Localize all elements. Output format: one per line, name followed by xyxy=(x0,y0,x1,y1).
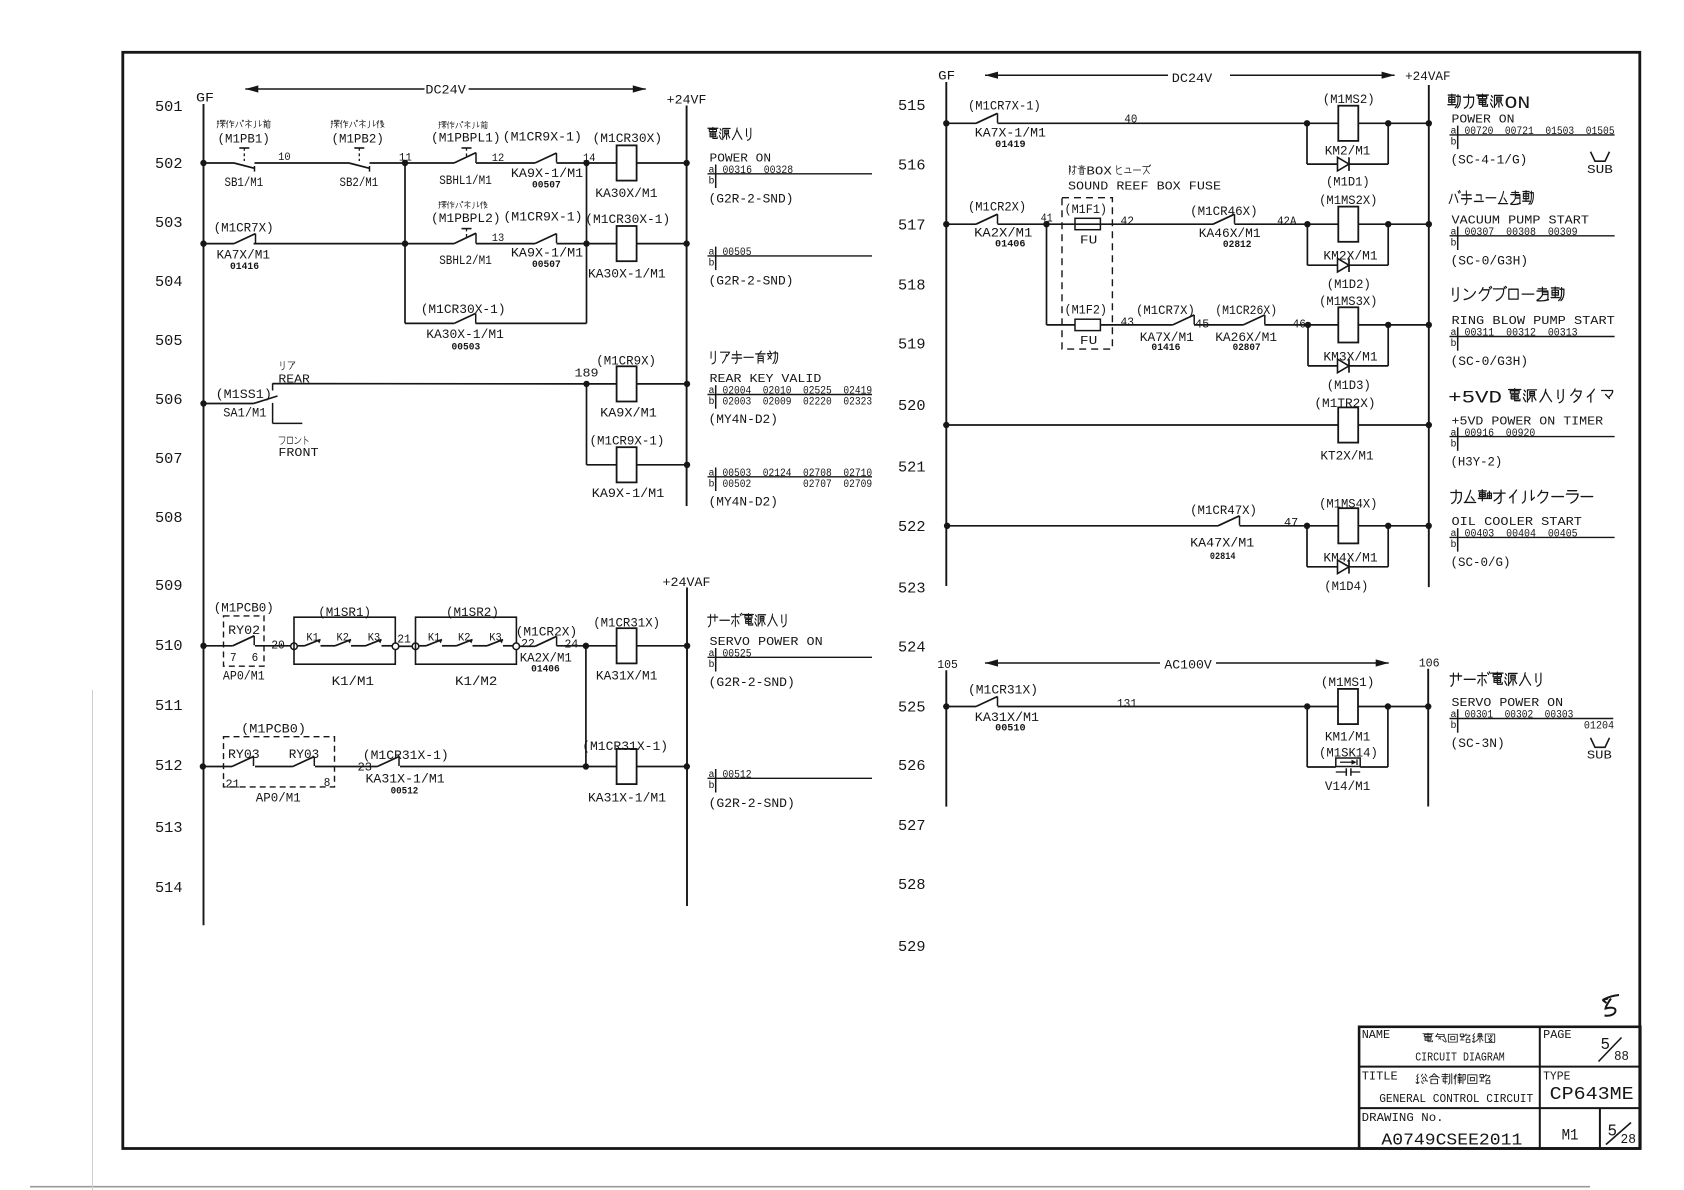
svg-text:02003 02009 02220 02323: 02003 02009 02220 02323 xyxy=(723,397,873,409)
svg-text:KM3X/M1: KM3X/M1 xyxy=(1323,349,1377,364)
junction node 11 on rung 503 xyxy=(402,240,408,246)
svg-text:K2: K2 xyxy=(458,633,470,645)
svg-text:b: b xyxy=(709,659,715,671)
svg-text:+24VAF: +24VAF xyxy=(1405,70,1451,84)
svg-text:a: a xyxy=(709,770,715,781)
contacts K1 K2 K3 in M1SR1 xyxy=(297,639,392,645)
svg-text:00503: 00503 xyxy=(452,343,481,354)
svg-text:523: 523 xyxy=(898,580,926,597)
svg-text:511: 511 xyxy=(155,698,183,715)
relay contact KA9X-1/M1 (M1CR9X-1) rung 503 xyxy=(535,234,557,244)
junction +24VAF rail rung 512 xyxy=(684,763,690,769)
relay coil KA31X/M1 (M1CR31X) xyxy=(617,628,637,663)
svg-text:00510: 00510 xyxy=(995,724,1026,735)
junction on GF rail rung 512 xyxy=(200,763,206,769)
wire rung 525 xyxy=(946,706,1428,708)
contact RY03 second xyxy=(293,757,315,767)
svg-text:(H3Y-2): (H3Y-2) xyxy=(1451,454,1503,469)
junction rail 106 rung 525 xyxy=(1425,703,1431,709)
svg-text:10: 10 xyxy=(278,152,291,164)
svg-text:KT2X/M1: KT2X/M1 xyxy=(1320,449,1373,464)
svg-text:529: 529 xyxy=(898,939,926,956)
power rail +24VF vertical xyxy=(686,106,688,507)
svg-text:SB1/M1: SB1/M1 xyxy=(225,175,264,190)
svg-text:AP0/M1: AP0/M1 xyxy=(223,668,265,683)
svg-text:(M1SR2): (M1SR2) xyxy=(446,605,499,620)
svg-text:FU: FU xyxy=(1080,334,1097,348)
annotation サーボ電源入り (right) xyxy=(1450,672,1614,751)
svg-text:M1: M1 xyxy=(1562,1126,1579,1144)
power rail +24VAF vertical (right column) xyxy=(1428,85,1430,587)
svg-text:KA30X/M1: KA30X/M1 xyxy=(595,186,657,201)
svg-text:PAGE: PAGE xyxy=(1543,1028,1571,1042)
svg-text:(G2R-2-SND): (G2R-2-SND) xyxy=(709,675,795,690)
junction on GF rail rung 502 xyxy=(200,160,206,166)
label 操作パネル後 for SB2 xyxy=(331,120,384,128)
svg-text:DC24V: DC24V xyxy=(1172,71,1213,86)
junction +24VAF rail rung 510 xyxy=(684,643,690,649)
svg-text:a: a xyxy=(709,166,715,177)
surge killer V14/M1 (M1SK14) loop xyxy=(1307,707,1388,776)
svg-text:01416: 01416 xyxy=(1151,343,1180,354)
contactor coil KM2/M1 (M1MS2) xyxy=(1338,106,1358,141)
contactor coil KM2X/M1 (M1MS2X) xyxy=(1338,207,1358,242)
relay contact KA2X/M1 (M1CR2X) rung 510 xyxy=(520,636,557,646)
svg-text:(M1TR2X): (M1TR2X) xyxy=(1314,396,1375,411)
wire vertical x586 rung 510 to 512 xyxy=(585,646,587,767)
contactor coil KM3X/M1 (M1MS3X) xyxy=(1338,307,1358,342)
svg-text:a: a xyxy=(709,469,715,480)
svg-text:(M1D3): (M1D3) xyxy=(1327,378,1371,393)
svg-text:02812: 02812 xyxy=(1223,240,1252,251)
relay coil KA30X-1/M1 (M1CR30X-1) xyxy=(617,226,637,261)
svg-text:(MY4N-D2): (MY4N-D2) xyxy=(709,495,779,510)
svg-text:(SC-0/G): (SC-0/G) xyxy=(1451,555,1511,570)
svg-text:b: b xyxy=(709,258,715,270)
power rail 105 vertical xyxy=(945,670,947,806)
junction node 189 xyxy=(583,381,589,387)
wire rung 502 xyxy=(204,162,687,164)
junction on GF rail rung 510 xyxy=(200,643,206,649)
contactor coil KM4X/M1 (M1MS4X) xyxy=(1338,508,1358,543)
relay contact KA7X-1/M1 (M1CR7X-1) xyxy=(976,113,998,123)
svg-text:506: 506 xyxy=(155,392,183,409)
svg-text:KA31X-1/M1: KA31X-1/M1 xyxy=(588,791,666,806)
junction GF rail rung 517 xyxy=(943,221,949,227)
svg-text:(M1CR26X): (M1CR26X) xyxy=(1215,303,1277,318)
svg-text:501: 501 xyxy=(155,99,183,116)
svg-text:513: 513 xyxy=(155,820,183,837)
svg-text:00311 00312 00313: 00311 00312 00313 xyxy=(1465,328,1578,340)
svg-text:DC24V: DC24V xyxy=(425,83,466,98)
junction diode loop right rung 522 xyxy=(1385,523,1391,529)
svg-text:a: a xyxy=(1451,428,1457,439)
svg-text:00505: 00505 xyxy=(723,247,752,259)
svg-text:K1: K1 xyxy=(428,633,441,645)
svg-text:(M1F1): (M1F1) xyxy=(1065,203,1108,217)
junction node 11 xyxy=(402,160,408,166)
svg-text:13: 13 xyxy=(492,233,505,245)
label 防音BOXヒューズ xyxy=(1069,165,1085,174)
junction surge loop right rung 525 xyxy=(1385,703,1391,709)
svg-text:A0749CSEE2011: A0749CSEE2011 xyxy=(1381,1132,1522,1151)
terminal circle 20 xyxy=(291,643,298,650)
svg-text:TITLE: TITLE xyxy=(1362,1070,1398,1084)
svg-text:(M1F2): (M1F2) xyxy=(1065,304,1108,318)
svg-text:b: b xyxy=(1451,238,1457,250)
svg-text:(SC-0/G3H): (SC-0/G3H) xyxy=(1451,254,1529,269)
svg-text:a: a xyxy=(709,386,715,397)
svg-text:K3: K3 xyxy=(368,633,380,645)
svg-text:(M1MS4X): (M1MS4X) xyxy=(1319,497,1377,512)
svg-text:KA30X-1/M1: KA30X-1/M1 xyxy=(426,327,504,342)
junction GF rail rung 520 xyxy=(943,422,949,428)
junction +24VF rail rung 502 xyxy=(683,160,689,166)
svg-text:a: a xyxy=(1451,228,1457,239)
svg-text:SB2/M1: SB2/M1 xyxy=(340,175,379,190)
svg-text:01419: 01419 xyxy=(995,140,1026,151)
power rail GF vertical (left column) xyxy=(203,104,205,925)
svg-text:00512: 00512 xyxy=(391,787,419,798)
wire rung 510 xyxy=(204,645,688,647)
annotation rung 512 xyxy=(708,769,873,811)
relay contact KA31X/M1 (M1CR31X) rung 525 xyxy=(976,697,998,707)
svg-text:a: a xyxy=(709,649,715,660)
svg-text:KA9X/M1: KA9X/M1 xyxy=(600,405,657,420)
svg-text:131: 131 xyxy=(1117,697,1137,711)
svg-text:00916 00920: 00916 00920 xyxy=(1465,428,1536,440)
svg-text:(SC-0/G3H): (SC-0/G3H) xyxy=(1451,354,1529,369)
contact RY03 first xyxy=(232,757,254,767)
annotation カム軸オイルクーラー OIL COOLER START xyxy=(1450,490,1615,570)
wire rung 506 REAR line xyxy=(273,383,687,385)
svg-text:518: 518 xyxy=(898,278,926,295)
PCB relay box (M1PCB0) RY03 dashed xyxy=(224,737,335,787)
diode M1D3 loop xyxy=(1308,325,1388,373)
relay contact KA46X/M1 (M1CR46X) xyxy=(1213,214,1235,224)
label フロント FRONT xyxy=(278,436,318,460)
svg-text:KA2X/M1: KA2X/M1 xyxy=(974,226,1032,241)
svg-text:517: 517 xyxy=(898,217,926,234)
diode M1D1 loop xyxy=(1307,123,1388,171)
svg-text:512: 512 xyxy=(155,758,183,775)
svg-text:106: 106 xyxy=(1419,656,1440,670)
svg-text:a: a xyxy=(1451,529,1457,540)
relay contact KA7X/M1 (M1CR7X) xyxy=(234,234,256,244)
wire branch node11 down xyxy=(404,163,406,323)
selector switch SA1/M1 (M1SS1) xyxy=(204,383,303,423)
svg-text:b: b xyxy=(709,479,715,491)
label リア REAR xyxy=(278,361,310,386)
svg-text:b: b xyxy=(1451,338,1457,350)
svg-text:46: 46 xyxy=(1293,317,1307,331)
svg-text:RY02: RY02 xyxy=(228,623,260,638)
svg-text:503: 503 xyxy=(155,215,183,232)
svg-text:00502 02707 02709: 00502 02707 02709 xyxy=(723,479,873,491)
SUB symbol rung 515 xyxy=(1587,152,1613,177)
svg-text:510: 510 xyxy=(155,638,183,655)
sound proof box dashed enclosure xyxy=(1062,198,1112,349)
SUB symbol rung 525 xyxy=(1587,738,1612,763)
svg-text:(M1CR30X): (M1CR30X) xyxy=(593,131,663,146)
junction +24VAF rail rung 519 xyxy=(1426,322,1432,328)
svg-text:(M1CR31X): (M1CR31X) xyxy=(593,615,660,630)
svg-text:01416: 01416 xyxy=(230,262,259,273)
svg-text:00720 00721 01503 01505: 00720 00721 01503 01505 xyxy=(1465,126,1615,138)
svg-text:(M1MS1): (M1MS1) xyxy=(1321,675,1375,690)
title block dividers xyxy=(1359,1027,1640,1149)
svg-text:KM1/M1: KM1/M1 xyxy=(1325,729,1371,744)
label 操作パネル後 for SBHL2 xyxy=(439,201,487,208)
relay coil KA9X-1/M1 (M1CR9X-1) xyxy=(617,447,637,482)
svg-text:(MY4N-D2): (MY4N-D2) xyxy=(709,412,779,427)
wire branch node14 down xyxy=(586,163,588,323)
svg-text:189: 189 xyxy=(575,367,599,381)
svg-text:507: 507 xyxy=(155,451,183,468)
junction diode loop left rung 522 xyxy=(1304,523,1310,529)
svg-text:(M1SS1): (M1SS1) xyxy=(216,387,272,402)
svg-text:b: b xyxy=(1451,137,1457,149)
junction GF rail rung 515 xyxy=(943,120,949,126)
svg-text:24: 24 xyxy=(565,637,579,651)
junction diode loop left rung 515 xyxy=(1304,120,1310,126)
svg-text:(M1CR9X-1): (M1CR9X-1) xyxy=(503,129,582,144)
PCB relay box (M1PCB0) RY02 dashed xyxy=(224,616,265,666)
junction node 46 xyxy=(1305,322,1311,328)
svg-text:42A: 42A xyxy=(1277,215,1297,229)
svg-text:505: 505 xyxy=(155,333,183,350)
relay contact KA31X-1/M1 (M1CR31X-1) xyxy=(377,757,399,767)
svg-text:K1: K1 xyxy=(306,633,319,645)
labels K1 K2 K3 (M1SR1) xyxy=(306,633,380,645)
svg-text:(M1D4): (M1D4) xyxy=(1324,579,1368,594)
svg-text:(M1CR30X-1): (M1CR30X-1) xyxy=(421,302,506,317)
svg-text:522: 522 xyxy=(898,519,926,536)
wire rung 507 xyxy=(587,464,688,466)
title block outer xyxy=(1359,1027,1640,1149)
junction +24VF rail rung 507 xyxy=(684,462,690,468)
left column line numbers 501-514 xyxy=(155,99,183,897)
annotation 動力電源ON POWER ON xyxy=(1448,94,1615,168)
svg-text:FU: FU xyxy=(1080,233,1097,247)
svg-text:509: 509 xyxy=(155,578,183,595)
wire branch horizontal rung 504/505 xyxy=(405,322,587,324)
svg-text:01204: 01204 xyxy=(1584,720,1615,732)
svg-text:(M1CR9X-1): (M1CR9X-1) xyxy=(590,433,665,448)
svg-text:526: 526 xyxy=(898,758,926,775)
svg-text:CIRCUIT DIAGRAM: CIRCUIT DIAGRAM xyxy=(1415,1050,1505,1064)
svg-text:5: 5 xyxy=(1601,1036,1611,1055)
svg-text:RING BLOW PUMP START: RING BLOW PUMP START xyxy=(1452,314,1615,328)
svg-text:SUB: SUB xyxy=(1587,163,1613,177)
relay coil KA30X/M1 (M1CR30X) xyxy=(617,145,637,180)
svg-text:7: 7 xyxy=(230,651,237,665)
svg-text:(M1CR30X-1): (M1CR30X-1) xyxy=(585,212,670,227)
handwritten page mark 5 xyxy=(1603,995,1620,1016)
junction rail 105 rung 525 xyxy=(943,703,949,709)
svg-text:a: a xyxy=(1451,127,1457,138)
svg-text:GF: GF xyxy=(196,91,214,106)
label 操作パネル前 for SBHL1 xyxy=(439,121,488,129)
svg-text:KA7X-1/M1: KA7X-1/M1 xyxy=(975,125,1046,140)
junction rung 512 x586 xyxy=(583,763,589,769)
junction node rung 503 x586 xyxy=(583,240,589,246)
AC100V span arrow xyxy=(985,659,1389,673)
scan artifact lines xyxy=(30,1186,1590,1188)
svg-text:(M1CR9X-1): (M1CR9X-1) xyxy=(503,210,582,225)
svg-text:a: a xyxy=(1451,710,1457,721)
svg-text:00307 00308 00309: 00307 00308 00309 xyxy=(1465,227,1578,239)
junction diode loop left rung 517 xyxy=(1304,221,1310,227)
svg-text:00316 00328: 00316 00328 xyxy=(723,165,794,177)
svg-text:01406: 01406 xyxy=(995,240,1026,251)
svg-text:CP643ME: CP643ME xyxy=(1550,1085,1634,1105)
safety relay unit box (M1SR2) xyxy=(416,617,517,664)
svg-text:520: 520 xyxy=(898,398,926,415)
diode M1D2 loop xyxy=(1307,224,1388,272)
svg-text:POWER ON: POWER ON xyxy=(710,152,772,166)
svg-text:527: 527 xyxy=(898,818,926,835)
svg-text:KA30X-1/M1: KA30X-1/M1 xyxy=(588,267,666,282)
svg-text:40: 40 xyxy=(1124,112,1137,126)
svg-text:515: 515 xyxy=(898,98,926,115)
annotation リングブロー起動 RING BLOW PUMP START xyxy=(1450,286,1615,369)
junction surge loop left rung 525 xyxy=(1304,703,1310,709)
svg-text:(M1MS2): (M1MS2) xyxy=(1323,92,1375,107)
svg-text:KA47X/M1: KA47X/M1 xyxy=(1190,536,1254,551)
wire rung 520 timer xyxy=(946,424,1429,426)
svg-text:SERVO POWER ON: SERVO POWER ON xyxy=(1452,696,1564,710)
contact RY02 xyxy=(233,636,255,646)
contactor coil KM1/M1 (M1MS1) xyxy=(1338,689,1358,724)
svg-text:(M1PCB0): (M1PCB0) xyxy=(241,722,306,737)
junction diode loop right rung 517 xyxy=(1385,221,1391,227)
svg-text:b: b xyxy=(709,396,715,408)
svg-text:12: 12 xyxy=(492,153,505,165)
svg-text:(M1SR1): (M1SR1) xyxy=(318,605,371,620)
power rail 106 vertical xyxy=(1427,669,1429,807)
svg-text:525: 525 xyxy=(898,700,926,717)
svg-text:45: 45 xyxy=(1195,317,1210,331)
terminal circles node 21 xyxy=(392,643,419,650)
svg-text:(M1PB2): (M1PB2) xyxy=(332,132,384,147)
svg-text:V14/M1: V14/M1 xyxy=(1325,779,1371,794)
svg-text:VACUUM PUMP START: VACUUM PUMP START xyxy=(1452,214,1589,228)
relay coil KA31X-1/M1 (M1CR31X-1) xyxy=(617,749,637,784)
svg-text:(M1CR31X-1): (M1CR31X-1) xyxy=(582,739,668,754)
wire rung 522 xyxy=(947,525,1429,527)
svg-text:SOUND REEF BOX FUSE: SOUND REEF BOX FUSE xyxy=(1068,179,1221,193)
relay contact KA2X/M1 (M1CR2X) rung 517 xyxy=(976,214,998,224)
svg-text:a: a xyxy=(1451,328,1457,339)
svg-text:SUB: SUB xyxy=(1587,749,1612,763)
svg-text:b: b xyxy=(709,176,715,188)
svg-text:REAR KEY VALID: REAR KEY VALID xyxy=(710,372,822,386)
junction GF rail rung 522 xyxy=(944,523,950,529)
junction diode loop right rung 519 xyxy=(1385,322,1391,328)
svg-text:(M1MS3X): (M1MS3X) xyxy=(1319,294,1377,309)
svg-text:(M1MS2X): (M1MS2X) xyxy=(1319,193,1377,208)
wire rung 515 xyxy=(946,122,1429,124)
pushbutton SBHL2/M1 (M1PBPL2) NO contact xyxy=(454,229,476,244)
svg-text:01406: 01406 xyxy=(531,665,560,676)
svg-text:K1/M2: K1/M2 xyxy=(455,674,497,689)
svg-text:(M1CR31X): (M1CR31X) xyxy=(968,683,1038,698)
svg-text:(M1PBPL1): (M1PBPL1) xyxy=(431,130,501,145)
fuse FU (M1F1) xyxy=(1075,218,1100,229)
pushbutton SB2/M1 (M1PB2) NC contact xyxy=(349,148,370,172)
svg-text:b: b xyxy=(1451,720,1457,732)
svg-text:FRONT: FRONT xyxy=(278,446,318,460)
wire rung 512 xyxy=(203,766,687,768)
contacts K1 K2 K3 in M1SR2 xyxy=(419,639,513,645)
relay contact KA30X-1/M1 (M1CR30X-1) self-hold xyxy=(454,313,476,323)
pushbutton SB1/M1 (M1PB1) NC contact xyxy=(234,148,255,172)
svg-text:21: 21 xyxy=(225,778,240,792)
annotation rung 507 xyxy=(708,468,873,510)
svg-text:(M1PBPL2): (M1PBPL2) xyxy=(431,211,501,226)
svg-text:AC100V: AC100V xyxy=(1164,659,1212,673)
junction +24VAF rail rung 520 xyxy=(1426,422,1432,428)
DC24V span arrow (right) xyxy=(985,71,1395,86)
annotation 電源入り POWER ON block xyxy=(708,127,873,206)
terminal circle 22 xyxy=(513,643,520,650)
fuse FU (M1F2) xyxy=(1075,319,1100,330)
svg-text:a: a xyxy=(709,248,715,259)
junction node 14 xyxy=(583,160,589,166)
svg-text:KA7X/M1: KA7X/M1 xyxy=(217,248,271,263)
relay contact KA7X/M1 (M1CR7X) rung 519 xyxy=(1173,315,1195,325)
svg-text:(M1CR7X-1): (M1CR7X-1) xyxy=(968,98,1041,113)
svg-text:KA2X/M1: KA2X/M1 xyxy=(520,650,572,665)
svg-text:(M1D1): (M1D1) xyxy=(1326,175,1370,190)
page number 5/88 xyxy=(1599,1036,1629,1065)
svg-text:20: 20 xyxy=(271,638,285,652)
svg-text:00507: 00507 xyxy=(532,260,561,271)
svg-text:RY03: RY03 xyxy=(228,747,260,762)
svg-text:43: 43 xyxy=(1121,315,1135,329)
junction diode loop right rung 515 xyxy=(1385,120,1391,126)
svg-text:42: 42 xyxy=(1121,215,1135,229)
svg-text:516: 516 xyxy=(898,158,926,175)
svg-text:+5VD POWER ON TIMER: +5VD POWER ON TIMER xyxy=(1452,414,1604,428)
safety relay unit box (M1SR1) xyxy=(294,617,395,664)
svg-text:521: 521 xyxy=(898,460,926,477)
svg-text:KM2/M1: KM2/M1 xyxy=(1325,143,1371,158)
svg-text:+24VF: +24VF xyxy=(667,94,707,108)
pushbutton SBHL1/M1 (M1PBPL1) NO contact xyxy=(454,148,476,163)
svg-text:502: 502 xyxy=(155,156,183,173)
svg-text:SA1/M1: SA1/M1 xyxy=(223,406,266,421)
labels K1 K2 K3 (M1SR2) xyxy=(428,633,502,645)
svg-text:514: 514 xyxy=(155,880,183,897)
svg-text:GF: GF xyxy=(938,69,955,84)
diode M1D4 loop xyxy=(1307,526,1388,574)
svg-text:SERVO POWER ON: SERVO POWER ON xyxy=(710,635,823,649)
svg-text:b: b xyxy=(1451,539,1457,551)
svg-text:KA9X-1/M1: KA9X-1/M1 xyxy=(511,166,583,181)
svg-text:504: 504 xyxy=(155,274,183,291)
svg-text:(SC-3N): (SC-3N) xyxy=(1451,736,1505,751)
annotation バキューム起動 VACUUM PUMP START xyxy=(1449,191,1614,269)
power rail +24VAF vertical (left column) xyxy=(686,588,688,907)
svg-text:KM2X/M1: KM2X/M1 xyxy=(1323,249,1377,264)
svg-text:TYPE: TYPE xyxy=(1543,1070,1570,1084)
svg-text:(M1D2): (M1D2) xyxy=(1327,277,1371,292)
svg-text:(M1SK14): (M1SK14) xyxy=(1319,745,1378,760)
svg-text:SBHL2/M1: SBHL2/M1 xyxy=(439,253,492,268)
wire rung 519 xyxy=(1047,324,1429,326)
